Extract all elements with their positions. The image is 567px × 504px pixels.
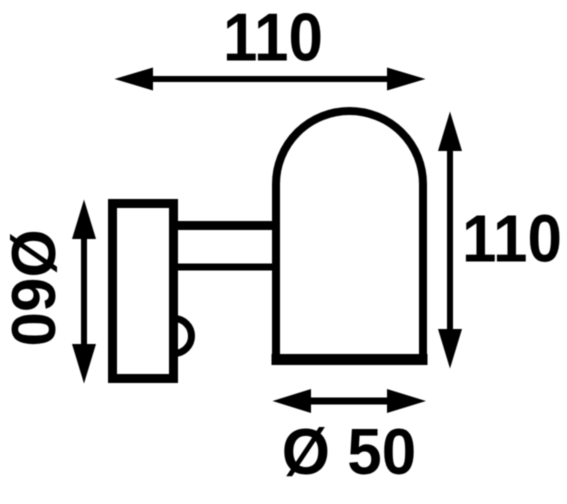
dimension arrow diameter 50 bottom: right head <box>387 389 426 413</box>
svg-text:Ø60: Ø60 <box>0 229 67 346</box>
dimension arrow diameter 60 left: shaft <box>81 234 87 349</box>
dimension arrow 110 top: shaft <box>148 76 392 82</box>
dimension arrow diameter 60 left: top head <box>72 200 96 240</box>
arm bottom line <box>174 264 284 271</box>
dimension arrow 110 right: top head <box>438 112 462 152</box>
dimension arrow diameter 50 bottom: left head <box>273 389 312 413</box>
switch bump on mount plate <box>174 319 192 354</box>
dimension arrow diameter 60 left: bottom head <box>72 344 96 384</box>
svg-text:110: 110 <box>462 201 562 276</box>
dimension arrow 110 top: left head <box>115 68 154 91</box>
dimension arrow 110 top: right head <box>387 68 426 91</box>
wall mount plate <box>113 204 174 379</box>
dimension arrow 110 right: shaft <box>447 146 453 334</box>
dimension arrow diameter 50 bottom: shaft <box>306 398 393 405</box>
dimension arrow 110 right: bottom head <box>438 329 462 369</box>
svg-text:Ø 50: Ø 50 <box>282 417 416 488</box>
lamp body <box>276 111 423 363</box>
lamp bottom edge <box>272 354 428 365</box>
svg-text:110: 110 <box>223 0 323 75</box>
arm top line <box>174 221 284 230</box>
